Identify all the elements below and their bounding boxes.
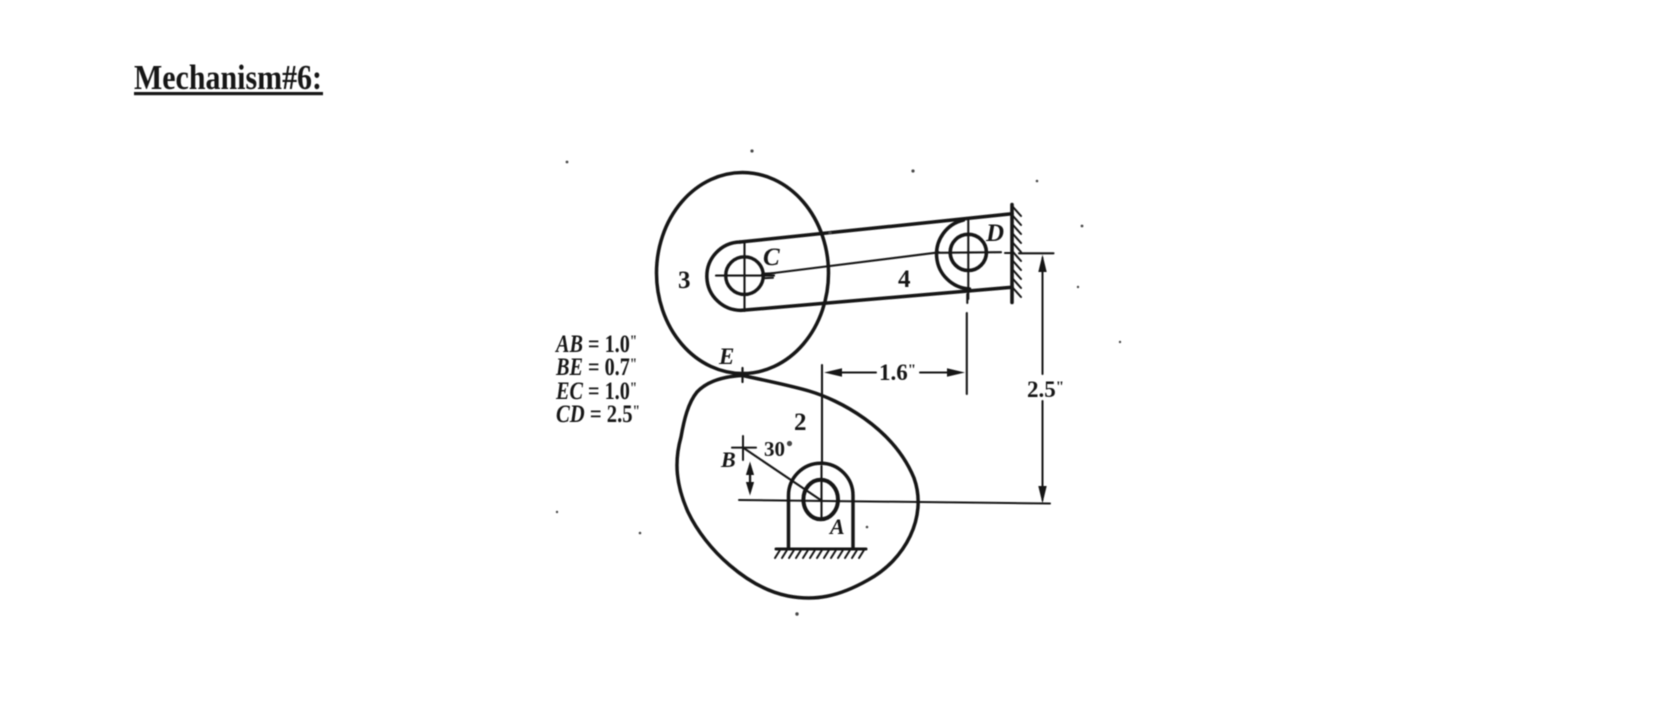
svg-text:B: B [720, 447, 736, 472]
svg-text:Mechanism#6:: Mechanism#6: [134, 58, 322, 97]
svg-text:E: E [718, 344, 734, 369]
svg-text:A: A [828, 514, 845, 539]
svg-text:1.6": 1.6" [879, 360, 916, 385]
svg-text:30: 30 [764, 437, 785, 461]
svg-text:BE = 0.7": BE = 0.7" [555, 354, 637, 381]
svg-text:3: 3 [678, 267, 691, 294]
svg-text:C: C [763, 244, 780, 271]
svg-text:2.5": 2.5" [1027, 377, 1064, 402]
svg-text:2: 2 [794, 409, 807, 436]
svg-text:D: D [985, 220, 1004, 247]
svg-text:CD = 2.5": CD = 2.5" [556, 401, 640, 428]
svg-text:4: 4 [898, 266, 911, 293]
